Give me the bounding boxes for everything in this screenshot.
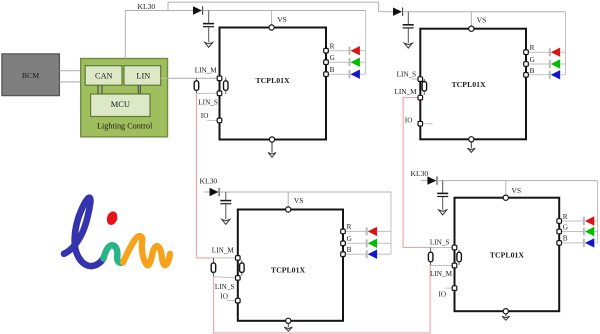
wire VS rail node 2 [403, 11, 566, 13]
svg-text:TCPL01X: TCPL01X [490, 250, 525, 259]
pin B U2 [524, 73, 529, 78]
capacitor C2 [403, 12, 414, 43]
svg-text:Lighting Control: Lighting Control [97, 122, 153, 131]
diode D4 [421, 176, 437, 184]
svg-text:G: G [563, 223, 568, 231]
svg-text:B: B [530, 67, 535, 75]
wire KL30 top rail [168, 1, 379, 3]
pin IO U3 [236, 298, 241, 303]
pin IO U2 [418, 121, 423, 126]
wire G line U3 [343, 242, 366, 244]
wire IO stub U3 [227, 300, 238, 302]
svg-text:TCPL01X: TCPL01X [255, 76, 290, 85]
pin G U2 [524, 62, 529, 67]
LED green D12 [367, 239, 391, 248]
BCM block [2, 54, 60, 96]
svg-text:R: R [530, 44, 535, 52]
svg-text:VS: VS [277, 15, 287, 24]
logo letter l (blue) [64, 198, 104, 266]
pin GND U4 [503, 309, 508, 314]
svg-text:TCPL01X: TCPL01X [451, 80, 486, 89]
LED red D14 [584, 216, 598, 225]
svg-text:IO: IO [439, 291, 447, 299]
pin VS U2 [469, 26, 474, 31]
pin LIN_S U2 [418, 77, 423, 82]
diode D3 [204, 188, 219, 196]
resistor R3 (internal, U2) [422, 79, 427, 95]
pin VS U3 [286, 207, 291, 212]
LED blue D13 [367, 250, 391, 259]
svg-text:LIN_S: LIN_S [397, 71, 417, 79]
LED red D5 [350, 46, 366, 55]
op chip U1 TCPL01X [220, 28, 327, 140]
pin VS U1 [269, 25, 274, 30]
pin B U4 [557, 241, 562, 246]
svg-text:VS: VS [477, 16, 487, 25]
pin LIN_S U4 [452, 245, 457, 250]
capacitor C1 [203, 11, 214, 43]
logo letter i (teal) [104, 245, 124, 263]
pin G U4 [557, 229, 562, 234]
pin B U1 [324, 72, 329, 77]
pin R U1 [324, 48, 329, 53]
wire BCM to CAN (lower) [59, 81, 86, 83]
svg-text:B: B [347, 246, 352, 254]
resistor R1 (external, node1) [194, 78, 199, 93]
svg-text:LIN_M: LIN_M [395, 88, 418, 96]
logo letter n (orange) [123, 236, 170, 265]
svg-text:KL30: KL30 [138, 2, 156, 11]
pin LIN_M U2 [418, 95, 423, 100]
LED green D6 [350, 58, 366, 67]
svg-text:IO: IO [220, 292, 228, 300]
svg-text:R: R [347, 223, 352, 231]
pin R U2 [524, 50, 529, 55]
capacitor C3 [220, 192, 231, 219]
svg-text:G: G [330, 54, 335, 62]
wire red LIN U2.LIN_M drop [403, 98, 431, 248]
resistor R2 (internal, U1) [224, 78, 229, 94]
LED blue D7 [350, 70, 366, 79]
wire KL30 drop to diode D2 [378, 2, 380, 12]
wire IO stub U1 [207, 119, 220, 121]
wire LED supply rail U1 [365, 11, 367, 75]
wire VS stub U1 [271, 11, 273, 28]
wire LIN_S line U4 [431, 247, 455, 249]
resistor R6 (external, node4) [428, 248, 433, 266]
LED green D15 [584, 227, 598, 236]
wire BCM to CAN (upper) [59, 70, 86, 72]
op chip U4 TCPL01X [455, 198, 560, 312]
ground (U2) [467, 142, 475, 153]
pin G U3 [341, 241, 346, 246]
MCU block [91, 94, 150, 117]
wire IO stub U4 [446, 287, 455, 289]
resistor R7 (internal, U4) [457, 250, 462, 265]
svg-text:G: G [347, 235, 352, 243]
pin GND U3 [286, 318, 291, 323]
wire VS rail node 1 [203, 10, 366, 12]
svg-text:LIN_S: LIN_S [198, 99, 218, 107]
diode D1 [193, 6, 203, 14]
wire B line U3 [343, 253, 366, 255]
svg-text:LIN: LIN [136, 72, 150, 81]
wire IO stub U2 [425, 123, 433, 125]
wire G line U4 [559, 231, 583, 233]
ground (U3) [284, 323, 292, 331]
LED red D8 [550, 48, 566, 57]
svg-text:LIN_M: LIN_M [430, 270, 453, 278]
wire KL30 riser at x168 [167, 2, 169, 10]
wire red LIN U3.LIN_S to U4.LIN_M (bottom bus) [214, 266, 431, 333]
ground (C4) [439, 210, 447, 215]
wire R line U3 [343, 230, 366, 232]
pin LIN_S U1 [217, 91, 222, 96]
svg-text:KL30: KL30 [200, 176, 218, 185]
wire LIN_S line U3 [213, 277, 237, 278]
wire G line U2 [526, 63, 549, 65]
svg-text:IO: IO [201, 112, 209, 120]
pin LIN_S U3 [236, 276, 241, 281]
pin B U3 [341, 252, 346, 257]
pin VS U4 [503, 195, 508, 200]
wire R line U2 [526, 51, 549, 53]
wire B line U4 [559, 242, 583, 244]
svg-text:B: B [330, 66, 335, 74]
svg-text:VS: VS [294, 196, 304, 205]
ground (U4) [502, 314, 510, 321]
wire B line U2 [526, 74, 549, 76]
svg-text:R: R [330, 43, 335, 51]
wire R line U4 [559, 220, 583, 222]
wire R line U1 [326, 50, 349, 52]
ground (C3) [222, 219, 230, 224]
wire LIN_M line U3 [213, 257, 237, 259]
wire LIN_S stub U2 [412, 78, 421, 80]
wire VS stub U4 [505, 181, 507, 198]
LED blue D10 [550, 70, 566, 79]
wire CAN to MCU pair [98, 85, 102, 94]
svg-text:R: R [563, 213, 568, 221]
wire VS stub U3 [287, 192, 289, 210]
wire LIN to MCU pair [138, 85, 140, 94]
wire G line U1 [326, 61, 349, 63]
svg-text:MCU: MCU [111, 99, 130, 109]
pin GND U1 [269, 137, 274, 142]
resistor R5 (internal, U3) [240, 260, 245, 275]
pin R U4 [557, 219, 562, 224]
ground (C1) [205, 42, 213, 47]
wire KL30 horizontal to diode D1 [125, 10, 193, 12]
wire LED supply rail U4 [597, 181, 599, 243]
wire red LIN U1.LIN_S to U3 (drop) [196, 94, 213, 258]
wire LED supply rail U2 [565, 12, 567, 75]
wire KL30 vertical to module [124, 11, 126, 59]
op chip U2 TCPL01X [420, 29, 526, 140]
svg-text:LIN_M: LIN_M [195, 67, 218, 75]
pin IO U1 [217, 118, 222, 123]
CAN block [85, 66, 122, 86]
pin GND U2 [469, 137, 474, 142]
diode D2 [393, 8, 403, 16]
svg-text:CAN: CAN [95, 72, 113, 81]
LIN block [124, 66, 161, 86]
LED green D9 [550, 59, 566, 68]
Lighting Control module box [81, 59, 168, 137]
wire VS stub U2 [470, 12, 472, 29]
wire LED supply rail U3 [390, 192, 392, 254]
svg-text:VS: VS [511, 186, 521, 195]
svg-text:G: G [530, 56, 535, 64]
svg-text:LIN_M: LIN_M [212, 246, 235, 254]
pin LIN_M U1 [217, 76, 222, 81]
ground (U1) [268, 142, 276, 157]
LED red D11 [367, 227, 391, 236]
wire LIN master to U1 LIN_M [161, 77, 220, 79]
svg-text:IO: IO [405, 116, 413, 124]
LED blue D16 [584, 238, 598, 247]
wire LIN_M line U4 [431, 265, 455, 267]
resistor R4 (external, node3) [211, 258, 216, 277]
wire VS rail node 3 [219, 191, 391, 193]
pin R U3 [341, 229, 346, 234]
logo i dot (red) [105, 210, 119, 226]
svg-text:TCPL01X: TCPL01X [271, 265, 306, 274]
svg-text:BCM: BCM [22, 71, 39, 80]
svg-text:LIN_S: LIN_S [430, 239, 450, 247]
wire LIN_S line U1 [196, 92, 219, 94]
pin IO U4 [452, 286, 457, 291]
svg-text:KL30: KL30 [411, 169, 429, 178]
op chip U3 TCPL01X [238, 210, 343, 321]
capacitor C4 [437, 181, 448, 210]
wire VS rail node 4 [437, 180, 598, 182]
ground (C2) [404, 43, 412, 48]
svg-text:B: B [563, 235, 568, 243]
svg-text:LIN_S: LIN_S [215, 283, 235, 291]
pin LIN_M U4 [452, 263, 457, 268]
wire B line U1 [326, 73, 349, 75]
pin G U1 [324, 60, 329, 65]
pin LIN_M U3 [236, 256, 241, 261]
